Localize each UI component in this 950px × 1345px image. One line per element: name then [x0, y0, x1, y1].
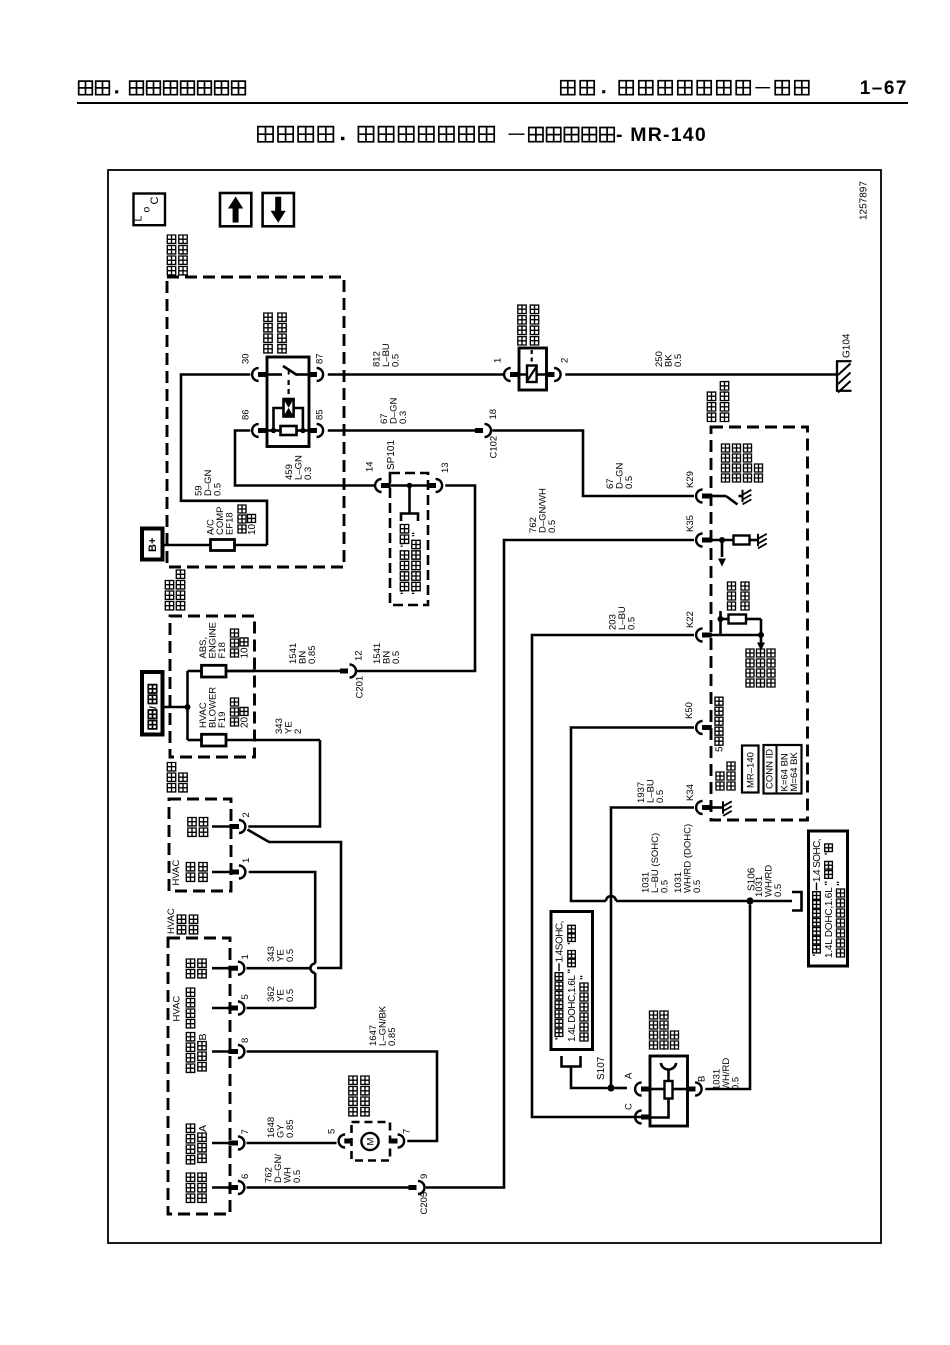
svg-text:K29: K29 [685, 471, 696, 488]
SP101 note 线路系统 中的 配电示意图 [400, 525, 420, 594]
svg-text:1: 1 [493, 358, 504, 363]
svg-text:K35: K35 [685, 515, 696, 532]
hvac pin 5 HVAC接通信号 [172, 988, 252, 1028]
svg-text:0.5: 0.5 [660, 880, 671, 893]
svg-text:0.85: 0.85 [285, 1120, 296, 1139]
svg-text:14: 14 [365, 461, 376, 472]
label 459 L-GN 0.3 [284, 455, 314, 480]
K34 internal ground [711, 801, 732, 816]
connector C205 pin 9 [409, 1174, 431, 1215]
wire blower pin1 down to junction [249, 872, 316, 964]
wire run/start to fuses [163, 671, 191, 740]
actuator pin 5 [327, 1129, 353, 1148]
svg-text:C102: C102 [489, 436, 500, 459]
wire 1541 BN 0.5 SP101-13 to C201-12 [357, 486, 475, 672]
relay pin 85 [308, 409, 325, 437]
K29 label 空调压缩机离合器线圈电源电压 [722, 444, 763, 482]
svg-text:13: 13 [440, 462, 451, 473]
label 762 D-GN/WH 0.5 [264, 1154, 304, 1183]
svg-text:EF18: EF18 [225, 512, 236, 535]
svg-text:1: 1 [240, 954, 251, 959]
svg-text:7: 7 [402, 1129, 413, 1134]
svg-text:C205: C205 [419, 1192, 430, 1215]
svg-text:HVAC: HVAC [166, 908, 177, 934]
engine compartment fuse box (dashed) [167, 277, 344, 567]
engine controls reference box left [551, 912, 593, 1050]
hvac pin 6 空调请求信号 [186, 1173, 251, 1202]
svg-text:30: 30 [241, 353, 252, 364]
connector C201 pin 12 [340, 650, 366, 698]
pressure sensor label 空调制冷剂压力传感器 [650, 1011, 679, 1049]
engine controls reference box right [809, 831, 848, 966]
svg-text:0.5: 0.5 [391, 354, 402, 367]
hvac pin 7 内循环风门控制A [186, 1124, 251, 1164]
wire 459 L-GN 0.3 relay 86 to SP101 pin 14 [235, 431, 376, 486]
splice S107 [596, 1056, 615, 1091]
relay switch contacts [267, 366, 309, 375]
splice SP101 dashed box [390, 473, 428, 605]
svg-text:MR–140: MR–140 [746, 752, 757, 788]
SP101 pin 13 [427, 462, 451, 492]
ECM label 发动机控制模块 [707, 382, 728, 422]
wire 59 D-GN 0.5 from fuse EF18 to relay pin 30 [181, 375, 267, 546]
svg-text:0.5: 0.5 [655, 790, 666, 803]
up arrow button [220, 193, 251, 226]
A/C compressor relay U-relay box [267, 357, 309, 447]
wire hvac pin1 to junction [247, 967, 311, 970]
blower switch label 鼓风机开关 [167, 763, 187, 792]
svg-text:0.85: 0.85 [387, 1028, 398, 1047]
B+ power box [142, 529, 163, 560]
wire K50 to S106 (1031) [571, 728, 747, 902]
relay pin 87 [308, 353, 325, 381]
label 1648 GY 0.85 [266, 1117, 296, 1138]
header rule [77, 102, 908, 104]
svg-text:M=64 BK: M=64 BK [789, 751, 800, 791]
svg-text:- MR-140: - MR-140 [616, 124, 707, 146]
label 67 D-GN 0.5 [605, 462, 635, 489]
label 250 BK 0.5 [654, 351, 684, 367]
sensor pin A [624, 1072, 651, 1096]
wire 762 D-GN/WH 0.5 C205 up to ECM K35 [426, 540, 694, 1188]
label 1541 BN 0.5 [372, 643, 402, 664]
svg-text:0.5: 0.5 [547, 520, 558, 533]
fuse F18 label [198, 622, 251, 658]
svg-text:1.4 SOHC,: 1.4 SOHC, [812, 839, 823, 883]
SP101 pin 14 [365, 461, 391, 492]
svg-text:5: 5 [240, 994, 251, 999]
svg-text:K34: K34 [685, 784, 696, 801]
svg-text:20: 20 [240, 716, 251, 728]
ECM pin K35 [685, 515, 712, 546]
SP101 splice dot and link [391, 483, 428, 521]
svg-text:5: 5 [715, 746, 726, 752]
A/C refrigerant pressure sensor box [650, 1056, 688, 1126]
K29 internal switch and ground [711, 490, 751, 505]
splice S106 [746, 867, 757, 904]
blower pin 2 附件电压 [188, 812, 252, 836]
page number 1-67 [860, 78, 908, 99]
label 343 YE 0.5 [266, 946, 296, 962]
svg-text:G104: G104 [842, 333, 853, 358]
wire 1541 BN 0.85 fuse F18 to C201 [226, 670, 340, 673]
svg-text:1.4L DOHC,1.6L: 1.4L DOHC,1.6L [824, 887, 835, 958]
wire 67 D-GN 0.3 relay 85 to C102 [328, 429, 475, 432]
wire 762 D-GN/WH 0.5 hvac pin6 to C205 [247, 1186, 411, 1189]
svg-text:10: 10 [240, 647, 251, 659]
wire S106 to engine controls reference [754, 900, 792, 903]
wire 1937 L-BU 0.5 K34 to S107 [611, 808, 694, 1089]
actuator pin 7 [389, 1129, 412, 1148]
label 空调制冷剂压力传感器信号 [746, 649, 775, 687]
svg-text:C201: C201 [355, 676, 366, 699]
label 67 D-GN 0.3 [379, 397, 409, 424]
svg-text:1257897: 1257897 [859, 181, 870, 220]
RUN/START box 运行/起动 [142, 672, 163, 735]
A/C compressor clutch [519, 348, 547, 390]
A/C recirculation actuator M [352, 1122, 391, 1161]
ECM pin K34 [685, 784, 712, 814]
svg-text:1.4L DOHC,1.6L: 1.4L DOHC,1.6L [567, 975, 578, 1042]
svg-text:8: 8 [240, 1038, 251, 1043]
clutch pin 1 [493, 358, 520, 381]
instrument panel fuse box label 仪表板保险丝盒 [165, 570, 184, 610]
junction curves at 343 YE node [311, 963, 316, 1008]
svg-text:0.5: 0.5 [731, 1077, 742, 1090]
relay pin 30 [241, 353, 268, 381]
label 812 L-BU 0.5 [372, 343, 402, 367]
svg-text:K50: K50 [684, 702, 695, 719]
svg-text:0.85: 0.85 [307, 646, 318, 665]
relay 86-85 internal wire [267, 429, 309, 432]
reference bracket right [792, 892, 802, 911]
sensor pin B [687, 1076, 708, 1096]
wire 250 BK 0.5 clutch to G104 [565, 373, 837, 376]
K22 internals resistor branch [711, 611, 765, 651]
fuse HVAC BLOWER F19 20A [188, 734, 321, 746]
svg-text:85: 85 [315, 409, 326, 420]
connector C102 pin 18 [475, 409, 500, 459]
fuse F19 label [198, 687, 251, 728]
svg-text:1–67: 1–67 [860, 78, 908, 99]
svg-text:A: A [624, 1072, 635, 1079]
svg-text:B: B [197, 1033, 209, 1040]
hvac pin 1 附件电压 [186, 954, 251, 978]
svg-text:0.5: 0.5 [285, 949, 296, 962]
sensor pin C [624, 1103, 651, 1124]
label 1031 WH/RD 0.5 at sensor [712, 1058, 742, 1090]
svg-text:/: / [147, 706, 159, 709]
svg-text:CONN ID: CONN ID [765, 749, 776, 789]
diagram border frame [108, 170, 881, 1243]
relay coil bypass loop [271, 408, 306, 433]
svg-text:2: 2 [241, 812, 252, 817]
K35 internals resistor to ground and arrow [711, 534, 767, 567]
diagram title [258, 124, 707, 146]
relay pin 86 [241, 409, 268, 437]
ECM pin K22 [685, 611, 712, 641]
svg-text:0.5: 0.5 [773, 884, 784, 897]
K22 label 空调请求信号 [728, 582, 750, 610]
wire reference to S107 [571, 1067, 607, 1089]
SP101 label [386, 440, 397, 470]
wire 1648 GY 0.85 hvac pin7 to actuator pin5 [247, 1142, 337, 1145]
wire blower pin2 to junction riser [247, 830, 341, 969]
svg-text:0.3: 0.3 [398, 411, 409, 424]
svg-text:o: o [141, 207, 153, 213]
wire 812 L-BU 0.5 relay 87 to clutch pin 1 [328, 373, 503, 376]
svg-text:F18: F18 [217, 642, 228, 658]
svg-text:7: 7 [240, 1129, 251, 1134]
page header left [79, 81, 246, 95]
svg-text:6: 6 [240, 1174, 251, 1179]
CONN ID box [764, 745, 802, 794]
HVAC control switch label HVAC控制开关 [166, 908, 198, 934]
svg-text:M: M [366, 1137, 377, 1145]
svg-text:1: 1 [241, 858, 252, 863]
svg-text:0.5: 0.5 [692, 880, 703, 893]
label 362 YE 0.5 [266, 986, 296, 1002]
label 1647 L-GN/BK 0.85 [368, 1005, 398, 1046]
ground G104 [836, 333, 853, 392]
svg-text:2: 2 [560, 358, 571, 363]
engine control module box (dashed) [711, 427, 808, 820]
wire S107 to sensor pin A [615, 1087, 627, 1090]
svg-text:K22: K22 [685, 611, 696, 628]
recirculation actuator label 空调内循环执行器 [349, 1076, 369, 1116]
blower motor switch (dashed) [169, 799, 231, 891]
svg-text:18: 18 [488, 409, 499, 420]
ECM pin K29 [685, 471, 712, 502]
svg-text:0.5: 0.5 [627, 617, 638, 630]
svg-text:SP101: SP101 [386, 440, 397, 470]
K34 label 低参考电压 [716, 762, 735, 790]
svg-text:S107: S107 [596, 1056, 607, 1080]
svg-text:A: A [197, 1125, 209, 1132]
fuse EF18 label [206, 505, 259, 535]
svg-text:0.5: 0.5 [673, 354, 684, 367]
instrument panel fuse box (dashed) [170, 616, 255, 757]
svg-text:86: 86 [241, 409, 252, 420]
wire 67 D-GN 0.5 C102 to ECM K29 [492, 431, 694, 497]
engine compartment fuse box label 发动机舱保险丝盒 [167, 235, 187, 275]
svg-text:B: B [697, 1076, 708, 1082]
A/C compressor clutch label 空调压缩机离合器 [518, 305, 539, 345]
svg-text:HVAC: HVAC [171, 860, 182, 886]
svg-text:0.5: 0.5 [624, 476, 635, 489]
K50 label 5伏参考电压 [715, 697, 726, 752]
label 762 D-GN/WH 0.5 top [528, 488, 558, 533]
svg-text:0.5: 0.5 [292, 1170, 303, 1183]
svg-text:C: C [149, 197, 161, 205]
svg-text:B+: B+ [147, 538, 159, 552]
svg-text:5: 5 [327, 1129, 338, 1134]
blower pin 1 HVAC接通信号 [171, 858, 252, 886]
label 1541 BN 0.85 [288, 643, 318, 664]
svg-text:F19: F19 [217, 712, 228, 728]
svg-text:0.3: 0.3 [303, 467, 314, 480]
wire 362 YE 0.5 hvac pin5 up to junction [247, 1007, 316, 1010]
reference bracket left [562, 1056, 581, 1067]
wire 1031 WH/RD 0.5 sensor B to S106 [705, 905, 750, 1089]
labels 1031 L-BU (SOHC) 0.5 / 1031 WH/RD (DOHC) 0.5 [641, 824, 704, 893]
relay coil parallel resistor [281, 426, 297, 435]
sensor internal transducer [650, 1063, 688, 1118]
label 1031 WH/RD 0.5 at S106 [754, 865, 784, 897]
svg-text:0.5: 0.5 [285, 989, 296, 1002]
svg-text:10: 10 [247, 523, 258, 535]
label 59 D-GN 0.5 [194, 469, 224, 496]
svg-text:L: L [133, 216, 145, 222]
relay coil [284, 380, 294, 417]
label 343 YE 2 [274, 718, 304, 734]
svg-text:0.5: 0.5 [391, 651, 402, 664]
svg-text:1.4SOHC,: 1.4SOHC, [555, 921, 566, 963]
HVAC control switch (dashed) [168, 938, 230, 1214]
fuse ABS ENGINE F18 10A [188, 665, 255, 677]
svg-text:12: 12 [354, 650, 365, 661]
svg-text:0.5: 0.5 [213, 483, 224, 496]
page header right [561, 81, 809, 95]
svg-text:9: 9 [419, 1174, 430, 1179]
label 1937 L-BU 0.5 [636, 779, 666, 803]
relay label 空调压缩机继电器 [264, 313, 286, 353]
svg-text:87: 87 [315, 353, 326, 364]
down arrow button [263, 193, 294, 226]
hvac pin 8 内循环风门控制B [186, 1033, 251, 1073]
clutch pin 2 [546, 358, 571, 381]
fuse A/C COMP EF18 10A [162, 540, 267, 551]
LOC reference box [133, 194, 166, 226]
wire 343 YE 2 fuse F19 to blower switch pin 2 [248, 740, 320, 827]
svg-text:HVAC: HVAC [172, 996, 183, 1022]
MR-140 box [742, 746, 759, 793]
label 203 L-BU 0.5 [608, 606, 638, 630]
wire 1647 L-GN/BK 0.85 hvac pin8 to actuator pin7 [247, 1052, 438, 1142]
wire 203 L-BU 0.5 K22 to sensor C [532, 635, 694, 1117]
svg-text:2: 2 [293, 729, 304, 734]
ECM pin K50 [684, 702, 712, 734]
svg-text:C: C [624, 1103, 635, 1110]
part number 1257897 [859, 181, 870, 220]
